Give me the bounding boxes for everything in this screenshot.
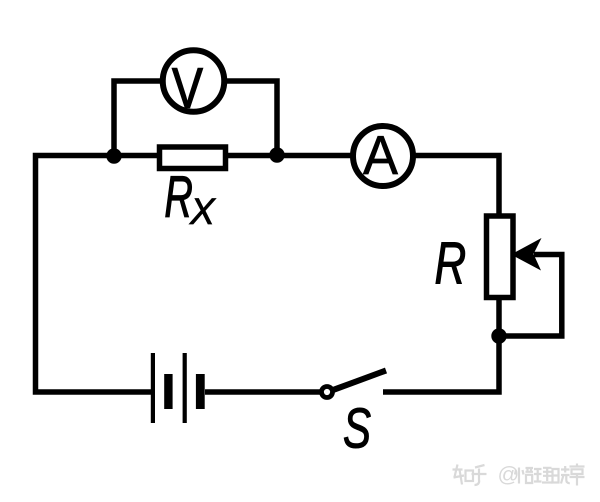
node: rheostat tap junction dot	[491, 328, 506, 343]
svg-text:S: S	[343, 396, 371, 460]
battery BT1: long plate 2	[183, 353, 187, 423]
watermark char 知	[453, 465, 474, 485]
svg-text:R: R	[164, 164, 192, 229]
svg-text:R: R	[435, 231, 467, 297]
node: right junction dot	[269, 147, 284, 162]
wire: rheostat slider tap loop	[499, 255, 562, 337]
wire: switch to bottom-right corner, up through node to rheostat bottom	[383, 297, 499, 392]
resistor Rx body	[160, 147, 226, 169]
svg-text:A: A	[363, 125, 398, 186]
watermark char 晓	[553, 466, 570, 484]
battery BT1: short thick plate 1	[164, 374, 172, 409]
switch S pivot circle	[322, 387, 333, 398]
watermark char 悟	[515, 468, 533, 484]
watermark char 章	[570, 464, 585, 486]
svg-text:X: X	[189, 191, 216, 232]
rheostat R body	[487, 216, 514, 298]
watermark char 乎	[472, 465, 487, 485]
switch S lever	[333, 371, 386, 391]
svg-text:V: V	[172, 56, 203, 120]
wire: main top wire from left node through Rx to right corner, down to rheostat	[114, 156, 499, 217]
battery BT1: short thick plate 2	[196, 374, 205, 409]
ammeter U2 circle	[353, 126, 413, 186]
watermark char 理	[534, 468, 553, 483]
rheostat slider arrowhead	[511, 238, 542, 271]
wire: left side loop (top-left, left vertical, bottom-left to battery)	[36, 156, 152, 393]
battery BT1: long plate 1	[151, 353, 155, 423]
voltmeter U1 circle	[163, 50, 225, 112]
wire: voltmeter parallel branch	[114, 81, 277, 158]
watermark: 知乎 @悟理晓章 (drawn strokes, light gray)	[453, 463, 585, 487]
node: left junction dot	[106, 148, 121, 163]
wire: battery to switch	[205, 389, 321, 395]
